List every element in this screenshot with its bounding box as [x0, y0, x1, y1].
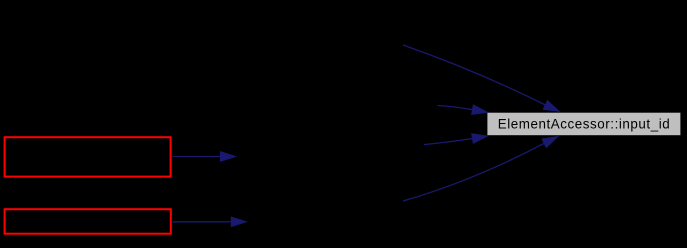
node: caller box 1 (red border, truncated graph node)	[5, 137, 171, 176]
wire: arrow from caller box 2 to hidden middle node	[173, 217, 247, 227]
wire: top curved edge A into top side of grey node	[403, 45, 559, 111]
wire: bottom curved edge D into bottom side of grey node	[403, 137, 558, 201]
wire: arrow from caller box 1 to hidden middle node	[173, 152, 236, 162]
wire: short edge C into bottom-left corner of grey node	[424, 134, 487, 145]
node: ElementAccessor::input_id (grey filled)	[487, 112, 681, 136]
node: caller box 2 (red border, truncated graph node)	[5, 209, 171, 234]
svg-text:ElementAccessor::input_id: ElementAccessor::input_id	[498, 116, 671, 131]
wire: short edge B into top-left corner of grey node	[438, 105, 488, 114]
